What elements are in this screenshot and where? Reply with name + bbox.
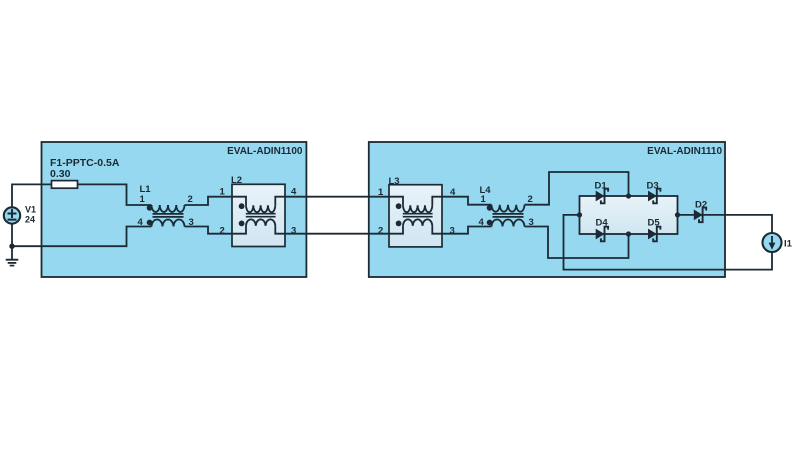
svg-text:1: 1 [220, 187, 226, 198]
svg-text:I1: I1 [784, 239, 793, 250]
svg-text:4: 4 [479, 217, 485, 228]
svg-text:1: 1 [140, 194, 146, 205]
svg-text:L3: L3 [389, 176, 400, 187]
svg-text:1: 1 [481, 194, 487, 205]
svg-text:4: 4 [291, 187, 297, 198]
svg-text:3: 3 [529, 217, 534, 228]
svg-text:D5: D5 [648, 217, 661, 228]
svg-text:24: 24 [25, 215, 35, 225]
svg-text:V1: V1 [25, 205, 36, 215]
svg-text:4: 4 [450, 187, 456, 198]
svg-text:3: 3 [450, 226, 455, 237]
svg-text:3: 3 [189, 217, 194, 228]
svg-text:D3: D3 [647, 180, 659, 191]
svg-text:2: 2 [378, 226, 383, 237]
svg-text:EVAL-ADIN1110: EVAL-ADIN1110 [647, 146, 722, 157]
svg-text:EVAL-ADIN1100: EVAL-ADIN1100 [227, 146, 303, 157]
svg-text:2: 2 [188, 194, 193, 205]
svg-text:0.30: 0.30 [50, 168, 71, 180]
svg-text:D4: D4 [596, 217, 609, 228]
svg-text:D1: D1 [595, 180, 608, 191]
svg-text:3: 3 [291, 226, 296, 237]
svg-text:2: 2 [220, 226, 225, 237]
svg-text:4: 4 [138, 217, 144, 228]
svg-text:2: 2 [528, 194, 533, 205]
svg-text:L2: L2 [231, 175, 242, 186]
svg-text:D2: D2 [695, 199, 707, 210]
svg-text:1: 1 [378, 187, 384, 198]
